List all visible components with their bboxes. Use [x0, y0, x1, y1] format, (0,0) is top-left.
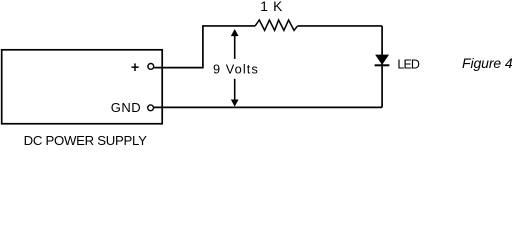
- wire top rail left segment: [202, 25, 255, 27]
- svg-text:9 Volts: 9 Volts: [213, 62, 259, 77]
- wire bottom rail: [154, 106, 382, 108]
- LED D1 triangle: [376, 55, 388, 64]
- voltage arrow upper segment: [231, 29, 239, 59]
- wire from + terminal to riser: [154, 67, 203, 69]
- svg-text:LED: LED: [397, 58, 419, 72]
- wire top rail right segment: [298, 25, 383, 27]
- voltage arrow lower segment: [231, 79, 239, 107]
- svg-text:1 K: 1 K: [260, 0, 283, 14]
- svg-text:Figure 4: Figure 4: [462, 55, 513, 71]
- wire right drop through LED: [381, 26, 383, 107]
- terminal GND circle: [148, 105, 154, 111]
- svg-text:DC POWER SUPPLY: DC POWER SUPPLY: [24, 133, 148, 148]
- svg-text:GND: GND: [111, 100, 141, 115]
- power supply box: [2, 50, 163, 124]
- terminal + label: [132, 63, 139, 71]
- LED D1 cathode bar: [375, 64, 390, 66]
- wire riser up to top rail: [202, 26, 204, 68]
- terminal + circle: [148, 64, 154, 70]
- resistor R1 zigzag: [255, 20, 298, 30]
